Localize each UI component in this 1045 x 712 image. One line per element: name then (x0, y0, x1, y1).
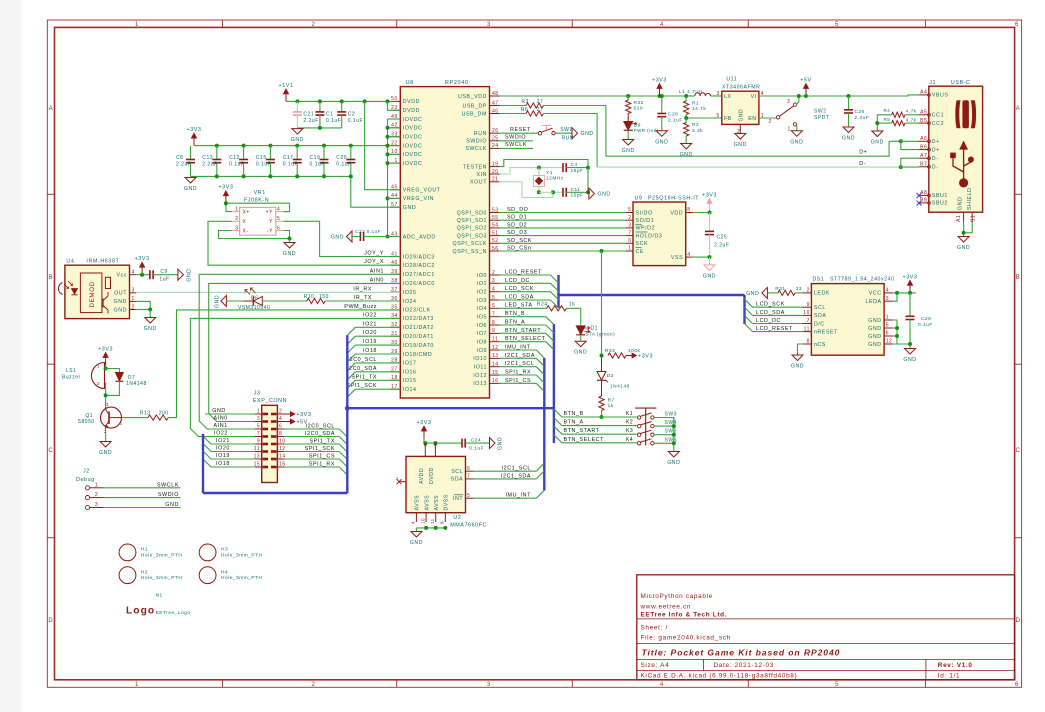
svg-text:SW1: SW1 (560, 127, 572, 133)
junction (148, 308, 152, 312)
svg-text:-Y: -Y (267, 228, 273, 234)
svg-text:CC1: CC1 (932, 113, 944, 119)
bus entry (554, 426, 562, 434)
svg-text:SCL: SCL (451, 469, 463, 475)
svg-text:8: 8 (279, 431, 282, 437)
svg-text:0.1uF: 0.1uF (918, 322, 933, 328)
bus entry (347, 327, 355, 335)
U2 pin 4 (AVSS) (415, 513, 417, 522)
bus entry (745, 324, 753, 332)
svg-text:SD_D1: SD_D1 (507, 215, 527, 221)
ground (145, 318, 156, 324)
ground (572, 128, 578, 139)
svg-text:IO15: IO15 (403, 378, 417, 384)
junction (586, 190, 590, 194)
svg-text:DS1: DS1 (813, 277, 825, 283)
switch SW4 (637, 424, 640, 427)
svg-text:SO/D1: SO/D1 (636, 218, 655, 224)
J1 USB trident icon (960, 142, 967, 183)
wire EN to sw2 (759, 117, 777, 119)
svg-text:IO19/DAT0: IO19/DAT0 (403, 343, 434, 349)
junction (626, 94, 630, 98)
wire BTN_SELECT (562, 442, 637, 444)
wire (355, 371, 400, 373)
svg-text:6: 6 (1015, 22, 1019, 28)
svg-text:LCD_SCK: LCD_SCK (505, 286, 534, 292)
svg-text:A1: A1 (956, 215, 962, 222)
J3 pin 6 (277, 428, 284, 430)
svg-text:8: 8 (687, 207, 690, 213)
svg-text:3: 3 (132, 288, 135, 294)
U8 pin 7 (IO5) (490, 316, 500, 318)
wire xin (500, 168, 564, 174)
svg-text:+3V3: +3V3 (652, 78, 667, 84)
wire PWM_Buzz (168, 310, 400, 418)
svg-text:HOLD/D3: HOLD/D3 (636, 233, 663, 239)
wire y1 bottom (539, 191, 553, 193)
ground (791, 131, 802, 137)
crystal Y1 12MHz (533, 175, 544, 186)
wire AIN1 (199, 274, 400, 429)
svg-text:IO3: IO3 (477, 298, 487, 304)
svg-text:1k: 1k (569, 302, 575, 308)
ground (709, 257, 711, 265)
svg-text:A5: A5 (920, 110, 927, 116)
wire RESET (500, 132, 539, 134)
wire GND pin57 (351, 176, 401, 207)
svg-text:AIN0: AIN0 (214, 416, 228, 422)
junction (104, 393, 108, 397)
power flag +3V3 (626, 355, 635, 357)
wire (211, 458, 255, 460)
svg-text:15pF: 15pF (571, 193, 584, 199)
svg-text:U4: U4 (66, 259, 74, 265)
U8 pin 38 (IO26/ADC0) (390, 282, 400, 284)
J1 pin A5 (CC1) (919, 114, 928, 116)
svg-text:LCD_RESET: LCD_RESET (756, 326, 793, 332)
wire (211, 466, 255, 468)
svg-text:27: 27 (537, 107, 544, 113)
junction (433, 441, 437, 445)
svg-text:C28: C28 (668, 112, 678, 118)
svg-text:IOVDC: IOVDC (403, 143, 423, 149)
J1 pin S1 (971, 212, 973, 222)
bus entry (536, 490, 544, 498)
VR1 pin 2 (X) (232, 220, 240, 222)
svg-text:X: X (243, 219, 247, 225)
svg-text:5: 5 (257, 424, 260, 430)
junction (363, 99, 367, 103)
svg-text:46: 46 (492, 108, 499, 114)
svg-text:DVDD: DVDD (429, 467, 435, 484)
power flag +3V3 (141, 264, 143, 275)
svg-text:IO13: IO13 (473, 381, 487, 387)
ground (185, 178, 196, 184)
svg-text:BTN_START: BTN_START (505, 328, 541, 334)
U8 pin 22 (IOVDC) (390, 145, 400, 147)
wire u2 3v3 (424, 439, 462, 444)
svg-text:47: 47 (492, 100, 499, 106)
display DS1 body (811, 284, 884, 356)
svg-text:R32: R32 (634, 100, 644, 106)
resistor R4 (892, 112, 905, 117)
svg-text:C: C (48, 448, 53, 454)
wire BTN_SELECT (500, 341, 546, 343)
U8 pin 31 (IO20/DAT1) (390, 335, 400, 337)
junction (908, 291, 912, 295)
svg-text:Debug: Debug (76, 477, 95, 483)
wire xout (500, 182, 564, 198)
junction (875, 121, 879, 125)
svg-text:IO12: IO12 (473, 373, 487, 379)
junction (386, 99, 390, 103)
svg-text:14: 14 (492, 362, 499, 368)
svg-text:2.2uF: 2.2uF (202, 161, 217, 167)
U9 pin 4 (VSS) (686, 256, 693, 258)
svg-text:52: 52 (492, 238, 499, 244)
svg-text:nCS: nCS (814, 342, 826, 348)
svg-text:J3: J3 (254, 391, 261, 397)
bus entry (546, 317, 554, 325)
bus entry (536, 367, 544, 375)
DS1 pin 2 (LEDK) (803, 292, 812, 294)
DS1 pin 7 (D/C) (803, 323, 812, 325)
svg-text:4.7k: 4.7k (906, 109, 917, 114)
svg-text:C23: C23 (355, 229, 365, 234)
svg-text:USB_VDD: USB_VDD (458, 94, 487, 100)
svg-text:FB: FB (724, 116, 732, 122)
svg-text:+5V: +5V (800, 78, 811, 84)
wire c9 gnd (153, 274, 178, 276)
U8 pin 12 (IO9) (490, 349, 500, 351)
svg-text:GND: GND (868, 342, 881, 348)
bus entry (203, 459, 211, 467)
DS1 pin 3 (LEDA) (884, 300, 893, 302)
wire IOVDC pin (388, 145, 401, 147)
capacitor C4 (562, 163, 564, 172)
svg-text:2: 2 (807, 288, 810, 294)
wire SD_SCK (500, 242, 627, 244)
capacitor C12 (243, 146, 245, 160)
svg-text:8: 8 (440, 521, 445, 524)
svg-text:1uF: 1uF (159, 277, 169, 283)
J1 pin B6 (D+) (919, 149, 928, 151)
svg-text:N1: N1 (156, 593, 163, 599)
U8 pin 23 (DVDD) (390, 109, 400, 111)
U8 pin 10 (IOVDC) (390, 153, 400, 155)
svg-text:SD_DO: SD_DO (507, 207, 528, 213)
wire u4 vcc (136, 274, 150, 276)
svg-text:GND: GND (291, 137, 304, 143)
wire vr1 pin3 gnd (219, 231, 290, 239)
svg-text:ADC_AVDD: ADC_AVDD (403, 234, 436, 240)
DS1 pin 8 (nCS) (803, 343, 812, 345)
svg-text:GND: GND (410, 540, 423, 546)
U9 pin 3 (WP/D2) (626, 227, 633, 229)
wire buzzer to d7 top (106, 369, 120, 373)
wire usb_dp a (500, 105, 527, 107)
svg-text:SPI1_TX: SPI1_TX (351, 374, 377, 380)
svg-text:Y: Y (269, 219, 273, 225)
svg-text:IO14: IO14 (403, 387, 417, 393)
resistor R3 (526, 103, 544, 108)
svg-text:DVSS: DVSS (444, 494, 450, 510)
svg-text:SD_D3: SD_D3 (507, 230, 527, 236)
U2 pin 8 (DVSS) (444, 513, 446, 522)
junction (672, 441, 676, 445)
svg-text:GND: GND (598, 192, 611, 198)
svg-text:4: 4 (687, 252, 690, 258)
svg-text:6: 6 (492, 303, 495, 309)
svg-text:Buzzer: Buzzer (62, 374, 81, 380)
svg-text:9: 9 (807, 302, 810, 308)
svg-text:8: 8 (807, 339, 810, 345)
J2 pin 2 (85, 496, 89, 500)
resistor R33 (608, 353, 626, 358)
junction (804, 94, 808, 98)
svg-text:R1: R1 (692, 101, 699, 107)
svg-text:XIN: XIN (476, 172, 487, 178)
svg-text:1N4148: 1N4148 (126, 381, 147, 387)
U8 pin 3 (IO1) (490, 282, 500, 284)
svg-text:IO22: IO22 (214, 431, 228, 437)
bus B1 vertical (346, 335, 348, 493)
wire IO22 (190, 318, 400, 436)
svg-text:GND: GND (903, 357, 916, 363)
svg-text:IO22: IO22 (363, 312, 377, 318)
wire vr1 y out (283, 221, 400, 256)
svg-text:GND: GND (184, 186, 197, 192)
svg-text:5: 5 (886, 323, 889, 329)
U9 pin 6 (SCK) (626, 242, 633, 244)
power flag +3V3 (709, 205, 711, 213)
wire SPI1_CS (500, 382, 537, 384)
J2 pin 1 (85, 486, 89, 490)
svg-text:R3: R3 (521, 99, 528, 105)
svg-text:11: 11 (804, 326, 810, 332)
svg-text:SW3: SW3 (665, 412, 677, 418)
capacitor C26 (848, 96, 850, 110)
svg-text:7: 7 (467, 474, 470, 480)
svg-text:8: 8 (492, 320, 495, 326)
wire J2 SWCLK (104, 487, 181, 489)
svg-text:54: 54 (492, 223, 499, 229)
svg-text:Sheet: /: Sheet: / (641, 625, 668, 632)
svg-text:QSPI_SD0: QSPI_SD0 (457, 210, 487, 216)
U8 pin 16 (IO13) (490, 382, 500, 384)
svg-text:C9: C9 (160, 269, 167, 275)
power flag +5V (284, 421, 293, 423)
U8 pin 14 (IO11) (490, 366, 500, 368)
U8 pin 1 (IOVDC) (390, 162, 400, 164)
U8 pin 32 (IO21/DAT2) (390, 326, 400, 328)
svg-text:26: 26 (492, 128, 499, 134)
svg-text:14.7k: 14.7k (692, 106, 706, 112)
svg-text:EN: EN (748, 116, 756, 122)
wire I2C1_SCL (474, 470, 537, 472)
U8 pin 33 (IOVDC) (390, 136, 400, 138)
power flag +3V3 (423, 428, 425, 439)
svg-text:GND: GND (868, 318, 881, 324)
svg-text:3: 3 (423, 443, 428, 446)
svg-text:IO5: IO5 (477, 315, 487, 321)
svg-text:D+: D+ (932, 147, 940, 153)
svg-text:2: 2 (492, 270, 495, 276)
switch SW2 SPDT (776, 116, 779, 119)
wire cc join (877, 115, 891, 131)
wire SWCLK (500, 147, 534, 149)
VR1 pin 1 (X+) (232, 211, 240, 213)
svg-text:11: 11 (492, 337, 498, 343)
svg-text:C: C (1016, 448, 1021, 454)
svg-text:I2C0_SCL: I2C0_SCL (306, 424, 335, 430)
power flag +1V1 (285, 90, 287, 101)
svg-text:GND: GND (214, 295, 220, 308)
U8 pin 28 (IO17) (390, 362, 400, 364)
svg-text:LCD_SCK: LCD_SCK (756, 302, 785, 308)
svg-text:IO22/DAT3: IO22/DAT3 (403, 316, 434, 322)
svg-text:27: 27 (537, 99, 544, 105)
wire J3 gnd (205, 413, 255, 415)
svg-text:B: B (49, 275, 54, 281)
svg-text:C15: C15 (256, 155, 267, 161)
joystick VR1 body (240, 207, 276, 235)
bus entry (347, 389, 355, 397)
svg-text:EETree_Logo: EETree_Logo (156, 610, 191, 616)
svg-text:5: 5 (628, 207, 631, 213)
bus entry (554, 418, 562, 426)
svg-text:24: 24 (492, 143, 499, 149)
junction (434, 526, 438, 530)
svg-text:3: 3 (628, 223, 631, 229)
svg-text:VI: VI (751, 94, 757, 100)
svg-text:AVSS: AVSS (434, 495, 440, 511)
wire SPI1_RX (500, 374, 537, 376)
svg-text:3: 3 (257, 416, 260, 422)
svg-text:1: 1 (135, 682, 139, 688)
svg-text:IO10: IO10 (473, 356, 487, 362)
svg-text:Y1: Y1 (546, 170, 553, 176)
wire to gnd (289, 239, 291, 243)
svg-text:1: 1 (235, 206, 238, 212)
svg-text:0.1uF: 0.1uF (367, 229, 381, 234)
svg-text:IO28/ADC2: IO28/ADC2 (403, 263, 435, 269)
svg-text:IO18: IO18 (216, 461, 230, 467)
J3 pin 13 (255, 458, 262, 460)
wire j1 gnd (963, 222, 965, 237)
svg-text:IO4: IO4 (477, 306, 487, 312)
wire u2 gnd (415, 528, 417, 532)
wire sw right (654, 425, 674, 427)
svg-text:U8: U8 (406, 80, 414, 86)
U4 internal transistor (102, 299, 104, 308)
connector J3 body (262, 405, 278, 482)
wire LCD_SDA (753, 314, 803, 316)
bus entry (203, 436, 211, 444)
U8 pin 52 (QSPI_SCLK) (490, 242, 500, 244)
J1 pin B5 (CC2) (919, 122, 928, 124)
U8 pin 6 (IO4) (490, 307, 500, 309)
bus entry (203, 451, 211, 459)
svg-text:5: 5 (835, 682, 839, 688)
svg-text:IO16: IO16 (403, 370, 417, 376)
svg-text:AIN1: AIN1 (214, 423, 228, 429)
U9 pin 7 (HOLD/D3) (626, 235, 633, 237)
U4 internal resistor (105, 277, 110, 288)
svg-text:BTN_A: BTN_A (505, 320, 525, 326)
svg-text:RUN: RUN (474, 131, 487, 137)
junction (349, 174, 353, 178)
U8 pin 49 (IOVDC) (390, 118, 400, 120)
svg-text:200: 200 (159, 410, 169, 416)
svg-text:H4: H4 (221, 569, 228, 575)
resistor R10 (307, 298, 325, 303)
junction (295, 99, 299, 103)
wire DVDD pins (388, 101, 401, 110)
IC U8 RP2040 body (400, 87, 489, 398)
resistor R32 (627, 96, 629, 100)
svg-text:3: 3 (492, 278, 495, 284)
wire vcc (893, 292, 916, 294)
svg-text:K2: K2 (626, 420, 633, 426)
svg-text:Size: A4: Size: A4 (641, 662, 670, 669)
svg-text:LS1: LS1 (66, 368, 77, 374)
capacitor C20 (350, 146, 352, 160)
junction (708, 211, 712, 215)
svg-text:B5: B5 (920, 118, 927, 124)
svg-text:H1: H1 (141, 547, 148, 553)
svg-text:XT3406AFMR: XT3406AFMR (722, 85, 760, 91)
svg-text:4: 4 (277, 206, 280, 212)
wire 1V1 caps gnd rail (297, 127, 341, 129)
svg-text:GND: GND (331, 235, 344, 241)
junction (443, 526, 447, 530)
U8 pin 55 (QSPI_SD1) (490, 219, 500, 221)
svg-text:Hole_3mm_PTH: Hole_3mm_PTH (141, 552, 182, 558)
bus entry (551, 292, 559, 300)
bus entry (536, 463, 544, 471)
svg-text:K1: K1 (626, 411, 633, 417)
svg-text:1: 1 (886, 315, 889, 321)
svg-text:Hole_3mm_PTH: Hole_3mm_PTH (141, 575, 182, 581)
svg-text:7: 7 (492, 312, 495, 318)
U8 pin 29 (IO18/CMD) (390, 353, 400, 355)
wire 3V3 caps gnd rail (191, 175, 351, 177)
U8 pin 26 (RUN) (490, 132, 500, 134)
wire rail to L1 (686, 95, 695, 97)
svg-text:IO11: IO11 (474, 365, 487, 371)
U8 pin 20 (XIN) (490, 173, 500, 175)
svg-text:SWDIO: SWDIO (505, 135, 526, 141)
bus B2 bottom (203, 492, 347, 494)
junction (586, 166, 590, 170)
svg-text:IMU_INT: IMU_INT (505, 345, 531, 351)
J3 pin 3 (255, 421, 262, 423)
bus entry (347, 363, 355, 371)
IC U11 XT3406AFMR body (722, 91, 759, 124)
bus entry (536, 375, 544, 383)
svg-text:QSPI_SCLK: QSPI_SCLK (453, 241, 487, 247)
wire q1 base to r13 (122, 417, 149, 419)
U4 pin 1 (GND) (130, 300, 137, 302)
svg-text:SWDIO: SWDIO (466, 139, 487, 145)
wire cc join2 (877, 122, 891, 124)
buzzer LS1 (92, 363, 105, 389)
capacitor C1 (319, 101, 321, 112)
svg-text:15: 15 (492, 370, 499, 376)
svg-text:I2C0_SDA: I2C0_SDA (305, 431, 335, 437)
junction (386, 161, 390, 165)
